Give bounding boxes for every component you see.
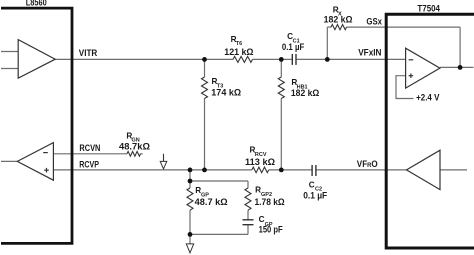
svg-text:VFxIN: VFxIN — [358, 48, 381, 58]
svg-text:182 kΩ: 182 kΩ — [291, 88, 319, 98]
junction node RCVP/R_HB1 — [279, 168, 284, 173]
capacitor C_C2 0.1uF (series, VFRO rail) — [312, 165, 316, 176]
wire: bottom tie R_GP to C_GP — [190, 233, 248, 235]
resistor R_GP 48.7k (vertical) — [187, 188, 193, 210]
wire: top amp input A — [1, 51, 18, 53]
junction node VFxIN/R_X — [325, 57, 330, 62]
arrow into RCVP node (open arrowhead) — [160, 154, 167, 169]
junction node RCVP/R_GP — [188, 168, 193, 173]
svg-text:150 pF: 150 pF — [259, 224, 284, 234]
wire: right bottom amp input — [440, 169, 467, 171]
wire: C_C1 to VFxIN op-amp input — [297, 58, 406, 60]
resistor R_GP2 1.78k (vertical) — [245, 188, 251, 210]
wire: R_GP2 to C_GP — [247, 210, 249, 219]
IC T7504 outline — [386, 14, 474, 248]
junction node op-amp output/GSx — [458, 65, 463, 70]
wire: R_X branch up — [326, 27, 328, 59]
svg-text:174 kΩ: 174 kΩ — [211, 88, 241, 98]
resistor R_X 182k (horizontal, GSx) — [331, 25, 347, 30]
wire: R_HB1 top lead — [280, 59, 282, 77]
resistor R_RCV 113k (horizontal, RCVP rail) — [252, 167, 269, 173]
resistor R_T3 174k (vertical) — [202, 77, 208, 99]
svg-text:T7504: T7504 — [417, 3, 440, 14]
svg-text:121 kΩ: 121 kΩ — [224, 47, 253, 57]
wire: R_HB1 bottom lead to RCVP — [280, 99, 282, 170]
capacitor C_C1 0.1uF (series, VITR rail) — [292, 54, 296, 65]
buffer T7504 receive (triangle left) — [407, 150, 441, 189]
junction node VITR/R_HB1 — [279, 57, 284, 62]
wire: R_GP branch top — [189, 170, 191, 188]
wire: top amp input B — [1, 68, 18, 70]
svg-text:RCVP: RCVP — [79, 160, 99, 170]
wire: +2.4V supply L-wire — [396, 76, 414, 99]
wire: R_GN stub — [141, 153, 143, 155]
svg-text:1.78 kΩ: 1.78 kΩ — [255, 197, 285, 207]
svg-text:48.7kΩ: 48.7kΩ — [119, 142, 150, 152]
svg-text:182 kΩ: 182 kΩ — [324, 15, 353, 25]
wire: RCVN net to R_GN — [53, 153, 127, 155]
wire: RCVP net to R_RCV — [53, 169, 252, 171]
pin minus (T7504 op-amp) — [409, 59, 414, 61]
svg-text:+2.4 V: +2.4 V — [416, 93, 439, 103]
wire: C_GP bottom lead — [247, 225, 249, 235]
resistor R_HB1 182k (vertical) — [278, 77, 284, 99]
svg-text:48.7 kΩ: 48.7 kΩ — [195, 197, 228, 207]
wire: C_C2 to VFRO amp — [316, 169, 406, 171]
wire: left bottom amp output — [1, 160, 17, 162]
wire: R_T6 to C_C1 — [253, 58, 292, 60]
wire: R_GP2 top lead — [247, 181, 249, 188]
wire: R_RCV to C_C2 — [269, 169, 312, 171]
wire: R_GP bottom — [189, 210, 191, 244]
svg-text:C: C — [309, 180, 315, 189]
wire: R_X left lead — [327, 26, 331, 28]
svg-text:GSx: GSx — [366, 17, 382, 27]
wire: R_T3 top lead — [204, 59, 206, 77]
wire: GSx feedback vertical — [459, 27, 461, 67]
pin minus (receive amp) — [43, 152, 48, 154]
wire: GSx net — [347, 26, 461, 28]
resistor R_T6 121k (horizontal, VITR rail) — [233, 56, 253, 62]
svg-text:0.1 µF: 0.1 µF — [303, 191, 327, 201]
junction node VITR/R_T3 — [202, 57, 207, 62]
svg-text:L8560: L8560 — [26, 0, 47, 8]
wire: branch to R_GP2 — [190, 180, 248, 182]
junction node R_GP/R_GP2 branch — [188, 179, 193, 184]
svg-text:0.1 µF: 0.1 µF — [282, 42, 305, 52]
resistor R_GN 48.7k (horizontal, RCVN) — [127, 151, 141, 156]
pin plus (T7504 op-amp) — [409, 75, 414, 77]
pin plus (receive amp) — [44, 169, 49, 171]
op-amp T7504 (triangle right) — [406, 48, 440, 88]
svg-text:RCVN: RCVN — [79, 143, 100, 153]
svg-text:113 kΩ: 113 kΩ — [245, 157, 275, 167]
wire: VITR net (amp output to R_T6) — [55, 58, 233, 60]
junction node bottom tie — [188, 232, 193, 237]
IC L8560 outline — [1, 8, 72, 243]
svg-text:VITR: VITR — [79, 48, 98, 58]
op-amp L8560 receive (triangle left) — [17, 143, 53, 181]
wire: right op-amp output — [440, 66, 474, 68]
ground arrow (open arrowhead, bottom) — [186, 244, 193, 253]
capacitor C_GP 150pF (vertical branch) — [243, 220, 254, 225]
wire: R_T3 bottom lead to RCVP — [204, 99, 206, 170]
op-amp L8560 transmit (triangle right) — [18, 40, 55, 79]
junction node RCVP/R_T3 — [202, 168, 207, 173]
